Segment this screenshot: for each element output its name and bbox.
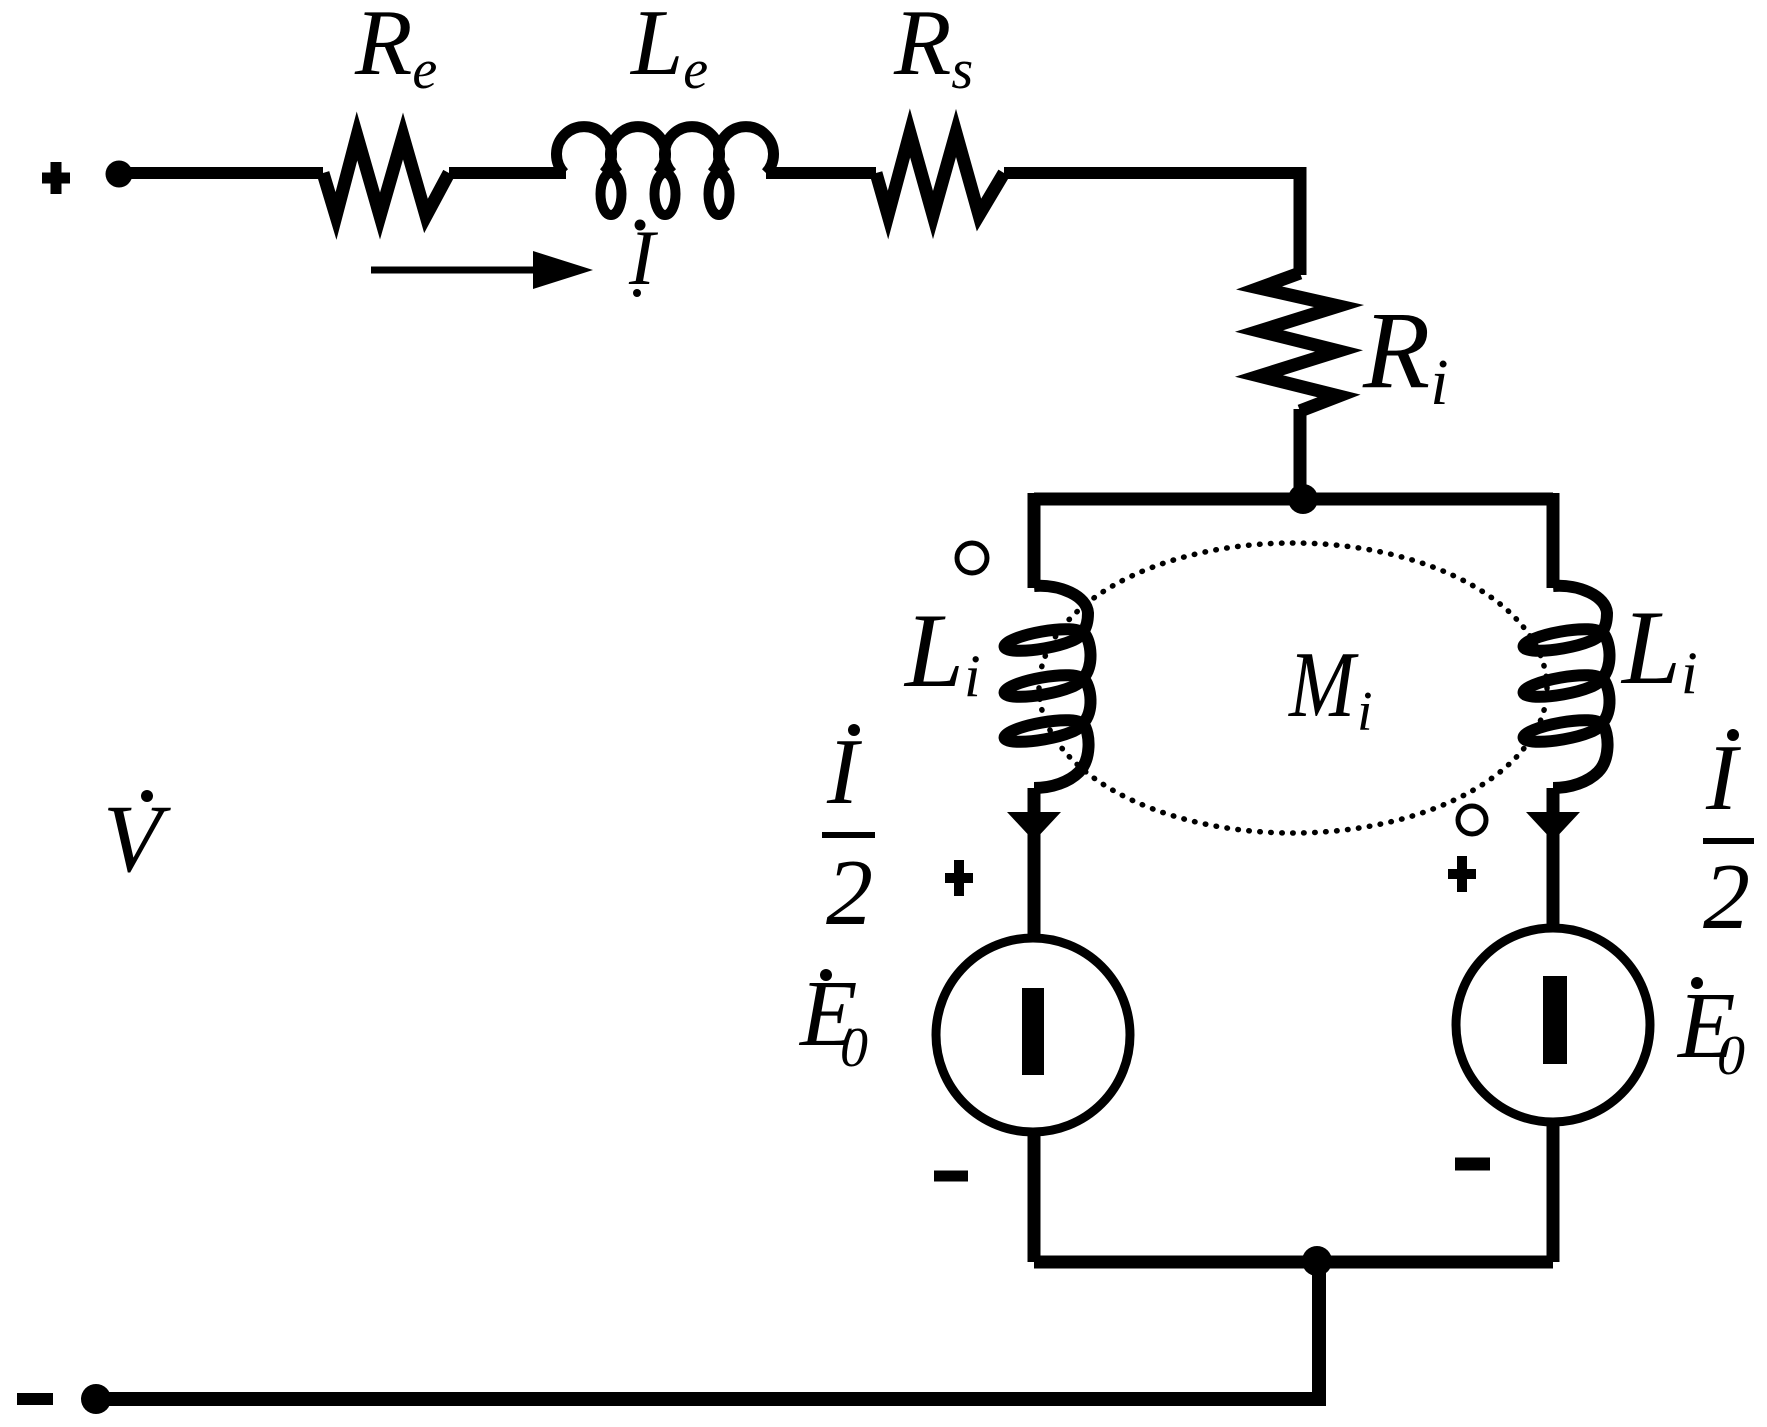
wire left coil to source	[1028, 788, 1041, 938]
svg-text:V: V	[103, 785, 171, 892]
wire top bus	[1034, 493, 1553, 506]
wire Rs to corner	[1004, 167, 1300, 179]
source E0 left	[936, 938, 1130, 1132]
inductor Li right	[1522, 586, 1609, 788]
label V	[141, 790, 153, 802]
source E0 right	[1456, 928, 1650, 1122]
wire right branch upper	[1547, 493, 1560, 588]
arrowhead right I/2	[1526, 812, 1580, 841]
wire bottom bus	[1034, 1256, 1553, 1269]
arrowhead left I/2	[1007, 812, 1061, 841]
minus sign left source	[934, 1171, 968, 1182]
wire bottom to terminal	[96, 1392, 1326, 1406]
svg-text:0: 0	[1717, 1025, 1745, 1087]
wire left branch upper	[1028, 493, 1041, 588]
junction node bottom	[1302, 1246, 1332, 1276]
svg-text:I: I	[628, 214, 659, 301]
plus sign left source	[945, 860, 973, 896]
wire Le to Rs	[766, 167, 876, 179]
minus sign right source	[1455, 1158, 1490, 1171]
inductor Le	[556, 127, 773, 173]
polarity circle right bottom	[1458, 806, 1486, 834]
wire left source to bottom bus	[1028, 1132, 1041, 1262]
wire corner down to Ri	[1294, 167, 1307, 275]
svg-text:0: 0	[840, 1017, 868, 1079]
plus terminal sign top-left	[42, 162, 70, 194]
label I/2 right	[1727, 729, 1739, 741]
resistor Rs	[876, 133, 1004, 215]
wire Re to Le	[449, 167, 566, 179]
wire Ri to node	[1294, 409, 1307, 499]
current arrow I	[371, 267, 540, 274]
wire top from terminal to Re	[119, 167, 323, 179]
minus terminal sign bottom-left	[17, 1393, 53, 1405]
inductor Li left	[1003, 586, 1090, 788]
label E0 right	[1691, 977, 1703, 989]
junction node top	[1288, 484, 1318, 514]
dotted coupling ellipse Mi	[1039, 543, 1547, 833]
svg-text:I: I	[1705, 726, 1741, 830]
plus sign right source	[1448, 856, 1476, 892]
label I/2 left	[848, 724, 860, 736]
svg-text:I: I	[826, 720, 862, 824]
resistor Ri	[1259, 273, 1339, 411]
wire right coil to source	[1547, 788, 1560, 928]
node dot bottom-left terminal	[81, 1384, 111, 1414]
label I dot	[635, 220, 646, 231]
svg-text:2: 2	[1703, 845, 1750, 949]
polarity circle left top	[957, 543, 987, 573]
svg-text:2: 2	[826, 841, 873, 945]
resistor Re	[323, 136, 449, 216]
label E0 left	[820, 969, 832, 981]
wire right source to bottom bus	[1547, 1122, 1560, 1262]
wire node stub down	[1312, 1262, 1326, 1399]
node dot top-left terminal	[106, 161, 133, 188]
